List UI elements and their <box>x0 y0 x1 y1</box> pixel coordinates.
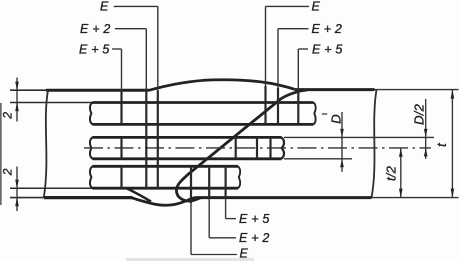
strip 2 left jagged break <box>90 137 93 158</box>
strip 2 inner cut mark 2 <box>256 137 258 158</box>
weld fusion diagonal with root hook <box>176 90 307 201</box>
vertical cut line E+5 right <box>297 49 299 90</box>
specimen strip 2 top edge <box>92 136 281 139</box>
vertical cut line E+5 bottom <box>225 166 227 197</box>
right plate break line <box>372 90 377 198</box>
specimen strip 3 bottom edge <box>92 187 238 190</box>
leader E+2 top-left <box>115 28 146 30</box>
dimension 2 top: stems and arrows <box>16 78 18 122</box>
svg-text:E: E <box>312 0 321 14</box>
strip 2 inner cut mark 3 <box>269 137 271 158</box>
svg-text:D: D <box>329 114 344 124</box>
vertical cut line E right <box>265 6 267 86</box>
dimension D extension bottom line <box>284 158 352 160</box>
svg-text:E + 2: E + 2 <box>239 231 270 245</box>
specimen strip 2 bottom edge <box>92 157 281 160</box>
strip 1 axis stub (dash) <box>322 113 327 115</box>
vertical cut line E+2 left <box>145 29 147 91</box>
vertical cut line E+2 bottom <box>208 166 210 197</box>
svg-text:E + 5: E + 5 <box>79 42 110 56</box>
left plate top surface <box>10 89 46 91</box>
leader E top-right <box>266 5 310 7</box>
specimen strip 1 top edge <box>92 101 313 104</box>
svg-text:D/2: D/2 <box>412 103 427 124</box>
leader E bottom <box>191 254 237 256</box>
leader E+5 top-left <box>112 48 121 50</box>
svg-text:E: E <box>100 0 109 14</box>
vertical cut line E bottom <box>190 166 192 203</box>
strip 2 right jagged break <box>281 137 284 158</box>
strip 3 left jagged break <box>90 166 93 188</box>
weld root left fusion flank <box>127 189 151 202</box>
svg-text:E + 2: E + 2 <box>312 22 343 36</box>
dimension t line and arrows <box>451 90 453 198</box>
svg-text:E + 2: E + 2 <box>80 22 111 36</box>
specimen strip 3 top edge <box>92 165 238 168</box>
strip 2 inner cut mark 1 <box>235 137 237 158</box>
vertical cut line E+2 right <box>277 29 279 88</box>
left plate 2mm offset line bottom (extension of strip3 bottom) <box>10 187 92 189</box>
bottom-edge scan shadow <box>126 258 254 261</box>
strip 1 left jagged break <box>90 103 93 125</box>
dimension D/2 stems and arrows <box>425 99 427 159</box>
leader E+5 bottom <box>226 218 236 220</box>
weld root bead (bottom reinforcement) <box>132 198 196 206</box>
left plate break line <box>44 90 48 197</box>
leader E+2 bottom <box>209 237 236 239</box>
right plate top surface <box>295 88 375 91</box>
vertical cut line E left (with leader from label) <box>157 6 159 90</box>
weld axis center line (dash-dot) <box>84 147 431 149</box>
vertical cut line E+5 left (broken at strip gaps) <box>121 49 123 90</box>
svg-text:E + 5: E + 5 <box>239 212 270 226</box>
dimension t/2 line and arrows <box>400 148 402 198</box>
weld cap (top reinforcement) <box>149 80 295 91</box>
svg-text:E + 5: E + 5 <box>312 43 343 57</box>
leader E+5 top-right <box>298 48 308 50</box>
left page-edge scan artifact <box>0 103 2 205</box>
svg-text:E: E <box>240 247 249 261</box>
leader E top-left <box>114 5 158 7</box>
right plate top surface extension (thin) <box>375 89 459 91</box>
right plate bottom surface <box>196 196 372 199</box>
dimension D stems and arrows <box>341 112 343 172</box>
strip 1 right jagged break <box>314 103 316 125</box>
svg-text:2: 2 <box>0 168 14 176</box>
strip 3 right jagged break <box>238 166 240 188</box>
left plate bottom surface <box>10 197 44 199</box>
dimension D extension top line <box>284 136 434 138</box>
leader E+2 top-right <box>278 28 309 30</box>
specimen strip 1 bottom edge <box>92 123 313 126</box>
svg-text:2: 2 <box>0 112 14 120</box>
right plate bottom surface extension (thin) <box>372 197 459 199</box>
dimension 2 bottom: stems and arrows <box>16 167 18 212</box>
left plate 2mm offset line top (extension of strip1 top) <box>10 102 92 104</box>
svg-text:t/2: t/2 <box>383 165 398 181</box>
